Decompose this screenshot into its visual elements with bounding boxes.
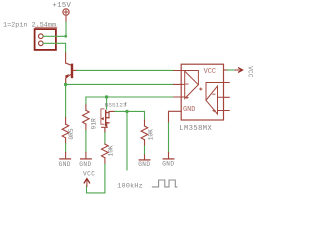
op-amp A triangle: [185, 71, 199, 98]
svg-text:GND: GND: [183, 106, 195, 114]
supply VCC symbol bottom: [83, 170, 95, 186]
svg-text:GND: GND: [59, 161, 71, 168]
svg-text:1=2pin 2.54mm: 1=2pin 2.54mm: [3, 21, 56, 29]
wire op-amp GND pin down: [168, 123, 170, 153]
supply VCC arrow right: [235, 66, 253, 78]
ground GND3: [138, 160, 150, 168]
op-amp B triangle: [206, 86, 218, 114]
svg-text:91R: 91R: [91, 118, 98, 129]
wire 0R5 to ground: [65, 144, 67, 153]
svg-text:0R5: 0R5: [68, 128, 75, 139]
wire node A down to R 0R5: [65, 85, 67, 118]
svg-text:10K: 10K: [148, 129, 155, 140]
svg-text:+15V: +15V: [52, 2, 71, 10]
svg-text:100kHz: 100kHz: [117, 183, 143, 191]
resistor 0R5: [62, 118, 75, 144]
wire drain up to net3: [106, 97, 108, 109]
node A junction dot: [64, 83, 67, 86]
pin stubs left: [174, 71, 182, 98]
connector JP1 2-pin header: [35, 29, 56, 50]
wire 10K to ground: [144, 146, 146, 155]
op-amp U1 LM358MX: [169, 64, 230, 133]
ground GND1: [59, 159, 71, 168]
svg-text:10K: 10K: [107, 145, 114, 156]
junction at pin1 corner: [64, 35, 67, 38]
svg-text:VCC: VCC: [247, 66, 254, 78]
resistor 10K (source): [102, 144, 115, 164]
wire base to op-amp pin1: [77, 69, 174, 71]
wire mosfet source to 10K: [104, 132, 106, 144]
wire pin2 down to transistor: [43, 43, 66, 53]
pin stubs right: [224, 83, 230, 111]
supply +15V symbol: [52, 2, 71, 22]
wire +15V down to connector pin1: [65, 22, 67, 36]
VCC pin stub: [224, 69, 228, 71]
GND pin: [169, 111, 182, 123]
svg-text:GND: GND: [138, 161, 150, 168]
wire gate to 10K pulldown: [115, 111, 145, 120]
value underline: [35, 26, 57, 28]
transistor Q1 PNP: [65, 53, 77, 84]
wire gate net dangling input: [126, 111, 128, 169]
junction net3 / mosfet drain: [105, 95, 108, 98]
svg-text:GND: GND: [162, 160, 174, 167]
wire node A to op-amp pin2: [66, 83, 174, 85]
mosfet Q2 BSS123: [101, 101, 127, 132]
wire pin1 to +15V column: [43, 35, 66, 37]
svg-text:GND: GND: [79, 161, 91, 168]
svg-text:VCC: VCC: [204, 68, 216, 76]
wire net3 91R corner to op-amp pin3: [86, 97, 174, 105]
svg-text:VCC: VCC: [83, 170, 95, 177]
resistor 10K gate pulldown: [141, 120, 155, 146]
ground GND2: [79, 159, 91, 168]
wire 10K to VCC: [87, 164, 105, 193]
wire 91R to ground: [85, 130, 87, 152]
square wave glyph: [152, 180, 177, 187]
ground GND4: [162, 159, 174, 167]
wire VCC pin to arrow: [227, 69, 235, 71]
svg-text:LM358MX: LM358MX: [179, 125, 212, 133]
svg-text:BSS123: BSS123: [105, 101, 127, 108]
junction gate net: [125, 110, 128, 113]
resistor 91R: [83, 105, 98, 131]
